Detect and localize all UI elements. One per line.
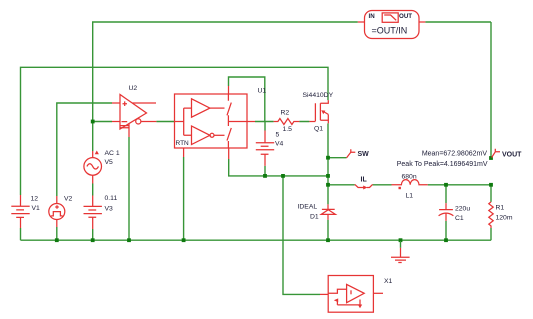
- svg-text:VOUT: VOUT: [502, 152, 522, 159]
- svg-text:D1: D1: [310, 214, 319, 221]
- svg-text:IDEAL: IDEAL: [298, 204, 318, 211]
- svg-text:0.11: 0.11: [105, 195, 118, 202]
- svg-text:1.5: 1.5: [283, 126, 293, 133]
- svg-text:V4: V4: [275, 141, 284, 148]
- svg-text:Mean=672.98062mV: Mean=672.98062mV: [422, 151, 488, 158]
- svg-text:IN: IN: [369, 13, 376, 20]
- svg-text:U1: U1: [258, 88, 267, 95]
- svg-text:12: 12: [31, 196, 39, 203]
- svg-text:R2: R2: [281, 110, 290, 117]
- svg-text:L1: L1: [406, 193, 414, 200]
- svg-text:OUT: OUT: [399, 13, 412, 20]
- svg-text:IL: IL: [361, 177, 368, 184]
- svg-text:120m: 120m: [496, 215, 513, 222]
- svg-text:U2: U2: [129, 85, 138, 92]
- svg-text:AC 1: AC 1: [105, 150, 120, 157]
- svg-text:V1: V1: [32, 205, 41, 212]
- svg-text:V3: V3: [105, 206, 114, 213]
- svg-text:C1: C1: [455, 215, 464, 222]
- svg-text:R1: R1: [496, 205, 505, 212]
- svg-text:RTN: RTN: [176, 140, 190, 147]
- svg-text:220u: 220u: [455, 206, 470, 213]
- svg-text:SW: SW: [358, 151, 370, 158]
- svg-text:Peak To Peak=4.1696491mV: Peak To Peak=4.1696491mV: [397, 161, 488, 168]
- svg-text:=OUT/IN: =OUT/IN: [372, 26, 408, 36]
- svg-text:Si4410DY: Si4410DY: [303, 92, 334, 99]
- svg-text:V5: V5: [105, 159, 114, 166]
- svg-text:V2: V2: [64, 196, 73, 203]
- svg-text:Q1: Q1: [314, 126, 323, 133]
- svg-text:X1: X1: [384, 278, 393, 285]
- svg-text:5: 5: [276, 132, 280, 139]
